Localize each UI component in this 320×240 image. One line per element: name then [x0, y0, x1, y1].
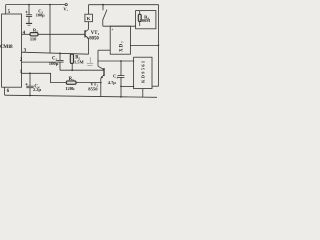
svg-text:V+: V+ — [63, 7, 68, 13]
wire KD9561 right lead — [152, 85, 159, 87]
relay K coil box — [85, 5, 93, 22]
socket XD box — [110, 26, 130, 54]
wire VT2 emitter down — [100, 78, 102, 96]
svg-text:100M: 100M — [140, 18, 150, 23]
node junction R3 emitter — [100, 82, 102, 84]
svg-text:100μ: 100μ — [36, 12, 45, 17]
wire C3 tap to KD9561 — [121, 85, 134, 87]
wire pin 1 — [22, 73, 67, 82]
wire pin 6 lead — [4, 87, 6, 95]
svg-text:100μ: 100μ — [49, 61, 59, 66]
wire top rail left — [6, 4, 65, 6]
wire pin 3 rail — [22, 52, 89, 54]
node junction right edge — [158, 45, 160, 47]
node V+ terminal — [65, 4, 67, 6]
IC U2 KD9561 box — [134, 57, 152, 88]
node junction C4 bottom rail — [29, 95, 31, 97]
wire VT2 collector up — [97, 50, 99, 66]
node junction C1 on rail — [28, 4, 30, 6]
svg-text:4.7μ: 4.7μ — [108, 80, 116, 85]
capacitor C4 — [25, 73, 33, 95]
node junction x50 on rail — [49, 4, 51, 6]
svg-text:8050: 8050 — [89, 37, 99, 42]
node junction C4 top — [29, 72, 31, 74]
relay contact K-1 — [103, 5, 107, 27]
wire vertical V+ feed — [49, 5, 51, 54]
wire KD9561 bottom lead — [142, 89, 144, 98]
IC U1 CM18 box — [2, 14, 22, 87]
resistor R4 — [138, 11, 141, 26]
wire collector branch to KD9561 — [98, 60, 134, 62]
resistor R1 — [30, 33, 38, 36]
capacitor C5 bypass — [87, 57, 93, 65]
wire contact to R4 — [103, 25, 136, 27]
wire bottom rail — [5, 95, 157, 97]
svg-text:XD7: XD7 — [120, 40, 125, 52]
wire pin 2 to C2 — [22, 61, 57, 63]
node junction contact on rail — [102, 4, 104, 6]
node junction R2 bottom — [71, 69, 73, 71]
svg-text:K: K — [87, 16, 91, 21]
svg-text:2.2μ: 2.2μ — [33, 87, 41, 92]
capacitor C3 — [118, 61, 125, 97]
node junction C3 top — [120, 60, 122, 62]
svg-text:120k: 120k — [65, 86, 75, 91]
resistor R2 — [70, 54, 73, 70]
svg-text:1.5M: 1.5M — [74, 60, 84, 65]
wire R1 to VT1 base — [38, 33, 85, 35]
wire right edge vertical — [158, 5, 160, 87]
wire pin 5 lead — [5, 5, 7, 14]
sensor module box — [136, 11, 156, 29]
transistor Q1 VT1 8050 — [85, 29, 89, 38]
wire pin 4 to R1 — [22, 33, 31, 35]
resistor R3 — [66, 81, 76, 84]
capacitor C2 — [56, 53, 63, 70]
node junction C2 top — [59, 52, 61, 54]
node junction C3 bottom rail — [120, 96, 122, 98]
wire VT1 emitter down — [88, 38, 90, 54]
svg-text:VT1: VT1 — [91, 31, 100, 36]
wire collector corner to XD — [98, 49, 110, 51]
svg-text:R3: R3 — [69, 77, 74, 82]
svg-text:8550: 8550 — [88, 86, 98, 91]
svg-text:CM18: CM18 — [0, 44, 13, 50]
wire K to VT1 collector — [88, 22, 90, 30]
wire XD to right edge — [130, 44, 158, 46]
svg-text:110: 110 — [30, 36, 37, 41]
svg-text:KD9561: KD9561 — [141, 60, 146, 83]
ground — [26, 23, 32, 25]
wire R3 to VT2 emitter — [76, 82, 101, 84]
wire top rail right — [89, 4, 159, 6]
node junction C3 tap — [120, 86, 122, 88]
transistor Q2 VT2 8550 — [98, 66, 104, 78]
wire C2 to VT2 base — [60, 69, 104, 71]
capacitor C1 — [26, 5, 33, 24]
